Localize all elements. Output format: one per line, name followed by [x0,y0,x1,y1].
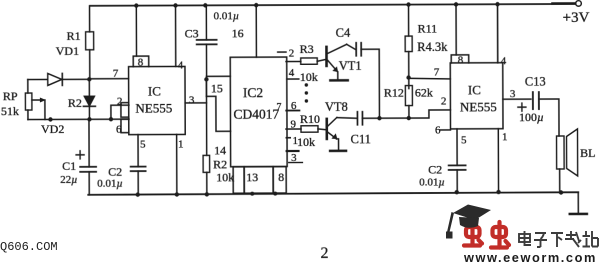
transistor Q2 VT8 [325,119,328,139]
svg-text:RP: RP [3,89,18,103]
wire rail to C3 [205,5,207,39]
svg-text:4: 4 [289,67,295,79]
wire IC3 pin5 to C2b [456,129,458,165]
node speaker rail [559,190,563,194]
terminal +3V [576,1,582,7]
capacitor C1 electrolytic [80,166,96,168]
svg-text:6: 6 [116,124,122,136]
wire C3 to node [205,44,207,79]
wire rail to IC3 pin4 [497,4,499,62]
node C2 rail [136,192,140,196]
capacitor C2 [131,166,146,168]
svg-text:R4.3k: R4.3k [417,40,448,54]
svg-text:7: 7 [276,102,281,113]
svg-text:0.01µ: 0.01µ [214,10,240,22]
resistor R12 [408,78,410,89]
svg-text:C11: C11 [351,132,371,146]
wire top supply rail [91,4,579,6]
node wiper junction [48,117,52,121]
wire rail to R11 [408,5,410,36]
wire R10 to VT8 base [318,128,326,131]
wire pin4 stub [287,78,299,80]
potentiometer RP [25,93,32,110]
svg-text:www.eeworm.com: www.eeworm.com [463,250,597,263]
wire RP wiper drop [44,100,46,119]
wire IC1 pin5 to C2 [137,135,139,167]
wire rail to IC1 pin4 [175,5,177,66]
svg-text:10k: 10k [300,70,318,84]
pin 2 notch IC1 [121,103,129,118]
node R2 rail [205,192,209,196]
node R12 bottom [407,116,411,120]
svg-text:2: 2 [117,96,123,108]
node rail C3 [203,3,207,7]
diode VD1 [48,73,62,85]
svg-text:5: 5 [461,134,467,146]
wire speaker to rail [559,169,561,192]
diode VD2 [88,79,90,96]
svg-text:1: 1 [178,138,184,150]
svg-text:VT8: VT8 [325,100,348,114]
svg-text:15: 15 [211,81,223,95]
wire IC1 pin1 to rail [176,134,178,194]
svg-text:IC2: IC2 [243,85,263,100]
node C4/C11 join [377,116,381,120]
wire C4 right to junction [361,49,379,118]
svg-text:C2: C2 [108,165,122,179]
svg-text:R3: R3 [300,42,314,56]
ground VT1 [330,79,347,81]
svg-text:100µ: 100µ [519,110,544,124]
node box8 rail [273,192,277,196]
svg-text:CD4017: CD4017 [233,107,279,122]
pin 3 CD4017 [286,150,300,152]
wire IC3 pin3 to C13 [503,98,531,100]
svg-text:VT1: VT1 [339,59,362,73]
resistor R11 [405,36,412,52]
svg-text:5: 5 [140,139,146,151]
IC U2 CD4017 body [230,57,287,167]
svg-text:7: 7 [434,66,440,78]
svg-text:C1: C1 [62,159,76,173]
svg-text:NE555: NE555 [135,100,172,115]
svg-text:6: 6 [291,100,297,112]
svg-text:2: 2 [289,48,295,60]
svg-text:62k: 62k [415,85,433,99]
wire pin2 stub CD4017 [278,51,286,53]
logo text dianzi xiazaizhan [519,231,598,247]
wire IC1 pin7 [90,78,129,80]
wire C13 to speaker [539,99,559,136]
wire VD1 row [28,78,90,80]
wire C2 to rail [137,171,139,194]
dash mark pin1 CD4017 [286,137,291,139]
transistor Q1 VT1 [325,47,328,66]
wire rail to CD4017 pin16 [255,5,257,57]
svg-text:22µ: 22µ [60,174,77,186]
svg-text:IC: IC [148,84,161,99]
wire C11 right row to IC3 pin2 [362,110,450,118]
svg-text:6: 6 [435,124,441,136]
node rail pin16 [254,3,258,7]
node pin1 rail [175,192,179,196]
wire VD2 node down to C1 [88,119,90,166]
svg-text:3: 3 [189,94,195,106]
op-amp U1 IC1 NE555 body [129,66,186,134]
svg-text:13: 13 [246,170,258,184]
node box13 rail [250,192,254,196]
wire VT8 collector to C11 [337,117,357,120]
svg-text:4: 4 [501,55,507,67]
svg-text:NE555: NE555 [460,99,497,114]
logo worm characters [464,222,509,248]
svg-text:8: 8 [278,170,284,184]
wire RP bottom lead [27,110,29,119]
wire RP top lead [27,80,29,93]
svg-text:51k: 51k [1,104,19,118]
capacitor C2 second [449,164,466,166]
wire pin6 stub [286,110,299,112]
wire left branch down from rail to R1 [89,6,91,32]
svg-text:R12: R12 [384,86,404,100]
node rail pin4 [173,3,177,7]
wire node down through R2 to rail [205,79,207,155]
svg-text:1: 1 [502,131,508,143]
wire IC3 pin1 to rail [497,129,499,192]
wire R3 to VT1 base [317,59,326,61]
svg-text:C13: C13 [525,75,546,89]
op-amp U3 IC3 NE555 body [450,63,503,129]
speaker BL [557,136,565,169]
pin box 8 [273,167,286,194]
svg-text:C3: C3 [185,26,199,40]
svg-text:+3V: +3V [563,10,590,26]
svg-text:0.01µ: 0.01µ [97,178,123,190]
wire IC3 pin7 [409,77,451,80]
wire +3V thick lead [553,2,576,5]
wire R11 to node [408,52,410,78]
node rail IC3 pin4 [495,2,499,6]
wire pin9 stub [286,128,301,130]
pin box 13 [233,167,244,194]
svg-text:3: 3 [510,88,516,100]
logo graduation cap [446,205,491,239]
node pin1b rail [496,190,500,194]
svg-text:0.01µ: 0.01µ [419,176,445,188]
capacitor C4 [355,43,357,56]
capacitor C11 [356,112,358,125]
node VD2 junction [87,117,91,121]
svg-text:Q606.COM: Q606.COM [0,240,58,254]
dots omitted pins [305,83,308,86]
wire IC1 pin2 stub [111,105,129,119]
svg-text:7: 7 [113,68,119,80]
node rail IC3 pin8 [454,2,458,6]
svg-text:C4: C4 [336,26,351,40]
wire IC1 pin3 output [185,102,206,104]
wire rail to IC1 pin8 [135,6,137,56]
svg-text:16: 16 [232,26,244,40]
svg-text:4: 4 [178,59,184,71]
wire R1 bottom to VD1 node [89,50,91,79]
capacitor C3 [197,39,217,41]
svg-text:8: 8 [138,57,144,69]
svg-text:BL: BL [580,146,595,160]
svg-text:8: 8 [458,54,464,66]
wire bottom ground rail [88,192,578,195]
node rail pin8 [134,3,138,7]
wire rail end drop [577,192,579,213]
resistor R3 [286,60,301,62]
svg-text:VD1: VD1 [56,44,79,58]
svg-text:10k: 10k [297,135,315,149]
ground VT8 [330,150,346,152]
svg-text:14: 14 [214,143,226,157]
node C2b rail [455,190,459,194]
svg-text:2: 2 [441,95,447,107]
wire rail to IC3 pin8 [455,4,457,54]
svg-text:R2: R2 [68,96,82,110]
node pin2 stub junction [109,117,113,121]
node C3/pin15 [204,77,208,81]
node R11/R12/pin7 [406,75,410,79]
svg-text:R2: R2 [213,157,227,171]
resistor R2 [203,155,210,172]
node junction VD1/R1 [87,77,91,81]
svg-text:R1: R1 [67,29,81,43]
wire bottom-left row to IC1 pins 2/6 [28,118,129,120]
RP wiper arrow [32,99,41,101]
ground main [570,213,587,216]
svg-text:9: 9 [290,119,296,131]
svg-text:R10: R10 [300,112,320,126]
pin 15 box CD4017 [206,76,230,96]
svg-text:2: 2 [320,245,328,262]
svg-text:C2: C2 [428,162,442,176]
wire IC3 pin6 stub [440,129,450,131]
svg-text:R11: R11 [418,21,438,35]
resistor R10 [301,126,318,132]
pin 8 notch IC3 [451,55,469,63]
pin 8 notch IC1 [133,56,149,67]
pin 6 notch IC1 [121,119,129,133]
resistor R1 [86,32,94,50]
svg-text:VD2: VD2 [41,122,64,136]
svg-text:IC: IC [468,82,481,97]
wire C1 to ground rail [88,172,90,195]
capacitor C13 electrolytic [532,92,534,109]
node rail R11 [406,2,410,6]
svg-text:10k: 10k [216,170,234,184]
